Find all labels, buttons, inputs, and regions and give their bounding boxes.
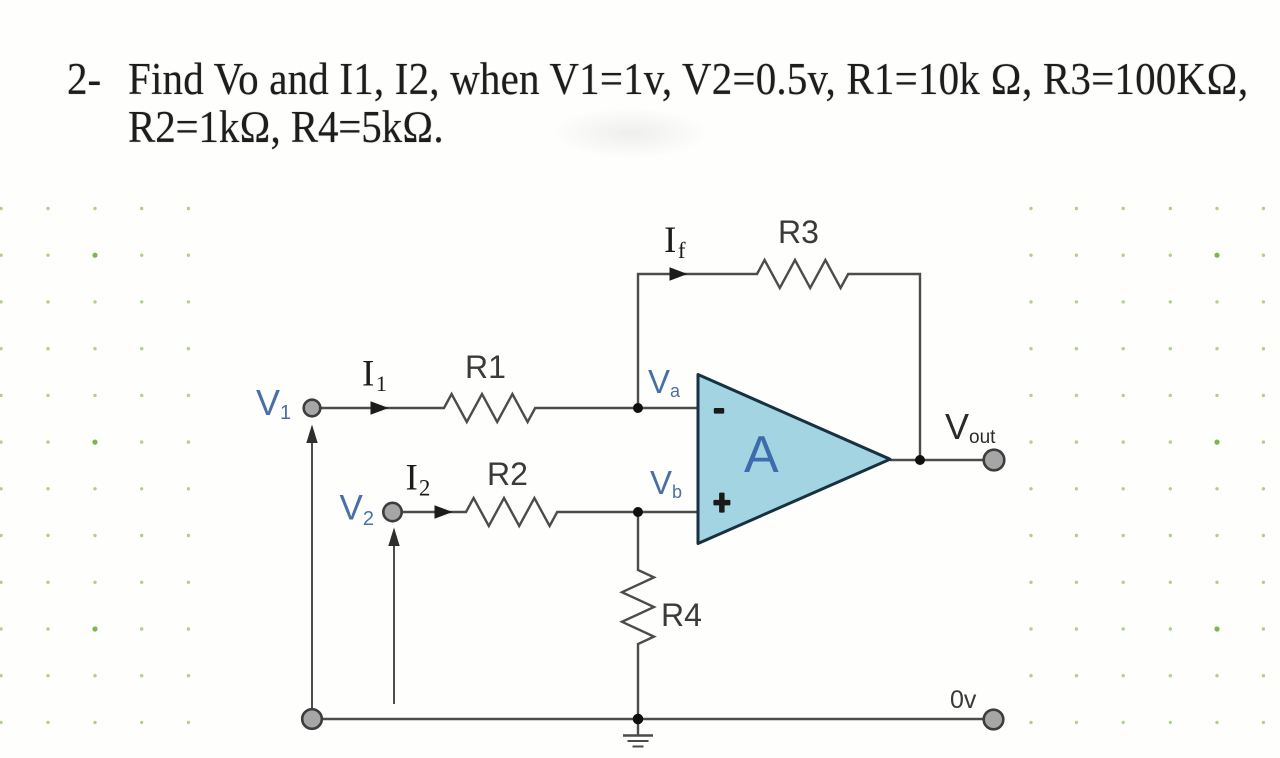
svg-text:Vb: Vb <box>650 464 682 502</box>
svg-text:R4: R4 <box>661 597 702 633</box>
svg-text:V2: V2 <box>340 489 374 531</box>
svg-text:A: A <box>744 426 779 484</box>
svg-text:If: If <box>664 220 686 263</box>
svg-text:R3: R3 <box>778 214 819 250</box>
svg-text:I1: I1 <box>362 354 387 397</box>
svg-text:I2: I2 <box>406 458 431 501</box>
svg-text:V1: V1 <box>256 382 291 424</box>
svg-text:R1: R1 <box>465 349 506 385</box>
svg-text:Vout: Vout <box>945 406 996 448</box>
svg-text:Va: Va <box>648 363 681 401</box>
svg-text:0v: 0v <box>950 686 977 714</box>
svg-text:R2: R2 <box>487 456 528 492</box>
